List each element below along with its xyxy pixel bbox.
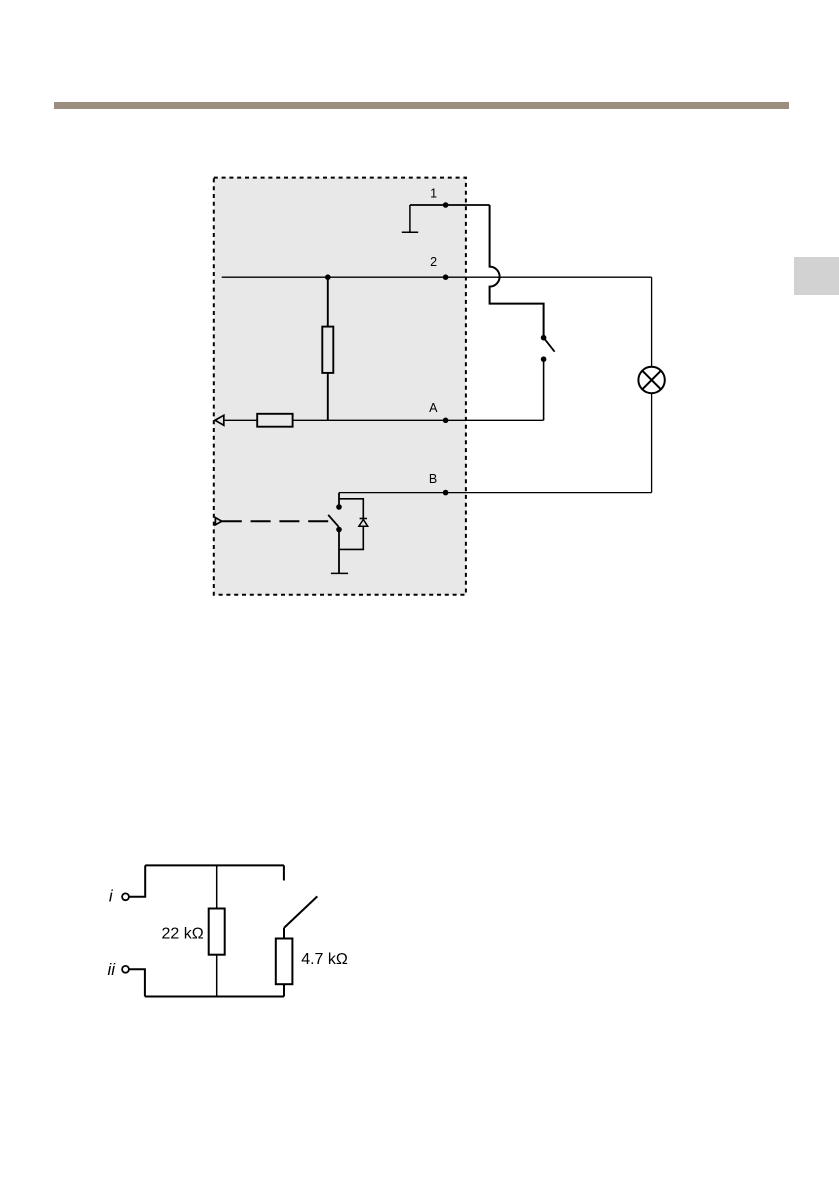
push button PB1 (328, 493, 342, 574)
switch stub from top rail (283, 865, 285, 880)
resistor R2 (257, 414, 292, 427)
svg-text:i: i (109, 886, 114, 905)
resistor 22k leads (216, 865, 218, 996)
svg-text:ii: ii (108, 960, 117, 979)
wire: node 2 to lamp (651, 277, 653, 367)
dashed device enclosure (214, 178, 466, 595)
sidebar tab (794, 257, 839, 295)
wire: switch to node A (543, 359, 545, 420)
resistor R1 leads (327, 277, 329, 420)
node 2 (443, 274, 449, 280)
wire: pin 1 lead (410, 204, 490, 206)
switch blade (4.7k branch) (284, 896, 317, 928)
wire: terminal ii to bottom rail (129, 969, 145, 996)
svg-text:2: 2 (430, 255, 437, 269)
ground (pin 1) (402, 205, 418, 232)
wire 2 (222, 276, 652, 278)
wire B (339, 492, 652, 494)
top rail (diagram 2) (145, 864, 284, 866)
diode D1 (359, 519, 368, 527)
node A (443, 418, 449, 424)
node 1 (443, 202, 449, 208)
wire: terminal i to top rail (129, 865, 145, 896)
actuation dashed link (222, 520, 329, 522)
resistor 4.7 kOhm (276, 939, 293, 985)
resistor 22 kOhm (209, 909, 225, 955)
diode D1 branch wires (339, 499, 363, 550)
output arrow (A row) (215, 415, 224, 425)
wire A (224, 419, 544, 421)
svg-text:4.7 kΩ: 4.7 kΩ (301, 951, 348, 968)
junction: wire 2 / resistor R1 (325, 274, 331, 280)
node B (443, 490, 449, 496)
resistor R1 (322, 327, 333, 373)
relay switch S1 (541, 335, 555, 362)
bottom rail (diagram 2) (145, 996, 284, 998)
wire: lamp to node B (651, 393, 653, 492)
lamp L1 (638, 367, 664, 393)
resistor 4.7k leads (283, 928, 285, 997)
svg-text:1: 1 (430, 187, 437, 201)
ground (push button) (331, 572, 348, 574)
terminal i (122, 893, 129, 900)
wire: pin 1 to relay switch with hop over wire 2 (490, 205, 544, 338)
actuation arrow (215, 518, 221, 525)
svg-text:22 kΩ: 22 kΩ (162, 926, 204, 943)
terminal ii (122, 966, 129, 973)
svg-text:B: B (429, 472, 437, 486)
header bar (54, 102, 789, 109)
svg-text:A: A (429, 401, 438, 415)
